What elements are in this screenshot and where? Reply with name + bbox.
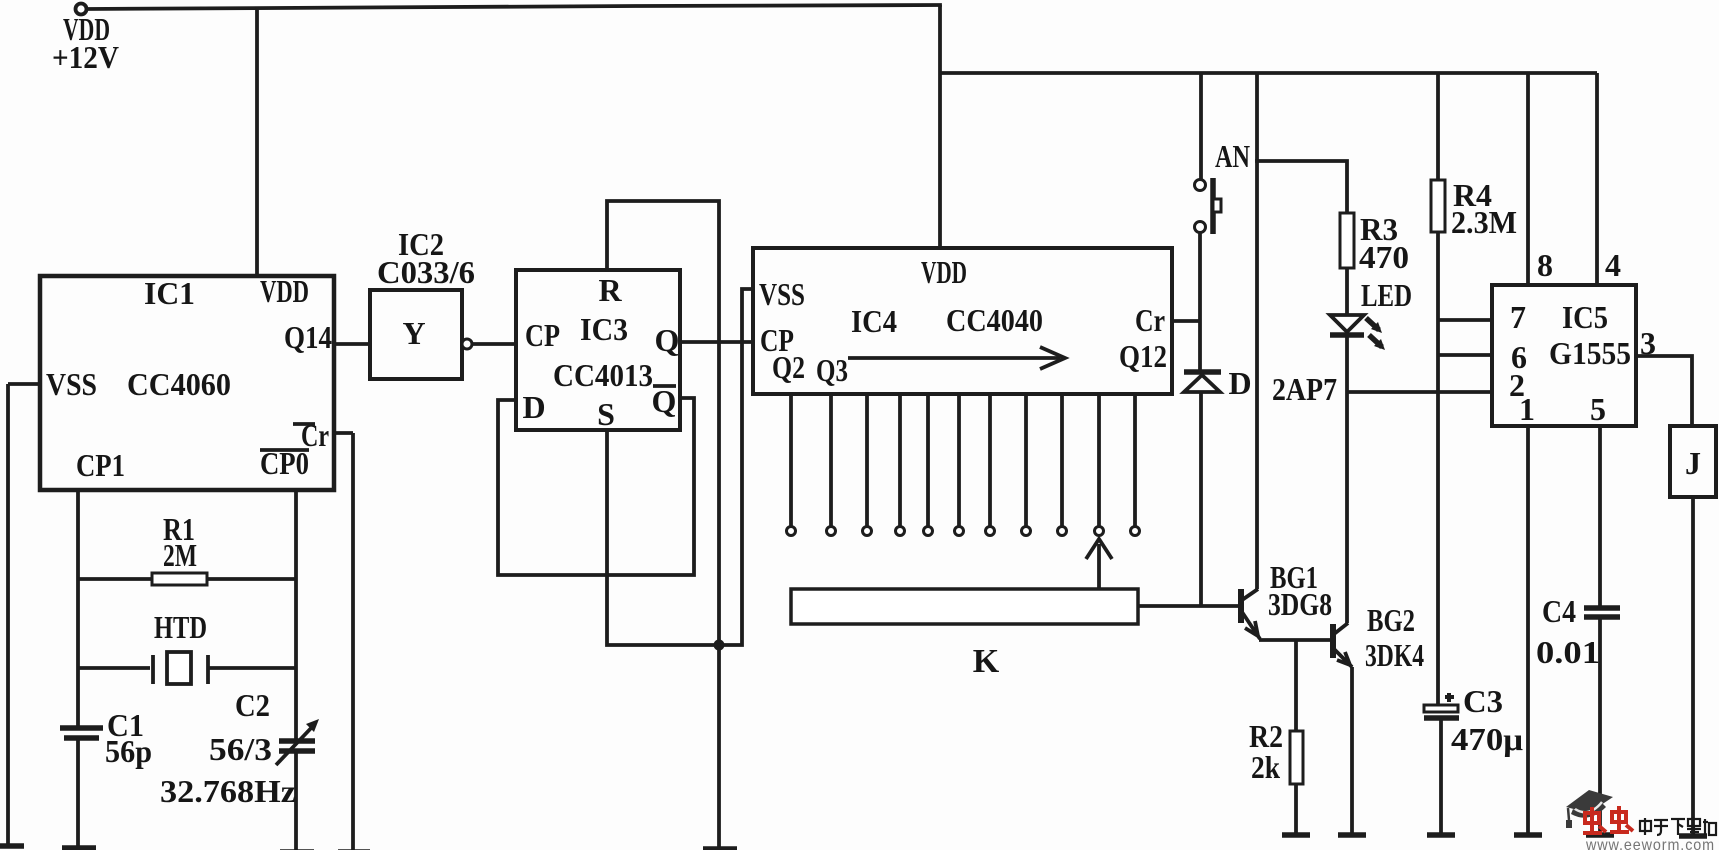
capacitor C3 bottom plate [1424, 715, 1459, 721]
svg-text:IC4: IC4 [851, 303, 897, 339]
svg-text:4: 4 [1605, 247, 1621, 283]
wire +12V rail right section [940, 71, 1597, 75]
svg-text:VSS: VSS [46, 366, 97, 402]
resistor R3 body [1340, 213, 1354, 268]
crystal HTD lead left [78, 666, 150, 670]
IC2 C033/6 inverter box [370, 290, 462, 379]
svg-text:Q2: Q2 [772, 349, 805, 385]
ground tick IC3 column [703, 846, 737, 850]
wire IC2 output to IC3 CP [472, 342, 516, 346]
switch K body [791, 589, 1138, 624]
wire CP0 column down [294, 490, 298, 741]
svg-text:J: J [1685, 445, 1701, 481]
wire CP1 column down [76, 490, 80, 727]
svg-text:G1555: G1555 [1549, 335, 1631, 371]
capacitor C4 plates [1584, 605, 1620, 611]
ground tick left rail [0, 843, 24, 849]
svg-text:C4: C4 [1542, 593, 1576, 629]
IC4 output pin stem 6 [957, 394, 961, 526]
resistor R1 wire [78, 577, 296, 581]
relay J box [1670, 426, 1716, 497]
wire J to ground [1691, 497, 1695, 836]
wire R4 down to C3 [1436, 232, 1440, 705]
svg-text:Cr: Cr [1135, 302, 1165, 338]
svg-text:S: S [597, 396, 615, 432]
transistor BG1 base bar [1238, 589, 1244, 623]
ground tick R2 [1282, 832, 1310, 838]
svg-text:2AP7: 2AP7 [1272, 371, 1337, 407]
wire C2 to ground [294, 751, 298, 850]
wire C1 to ground [76, 738, 80, 848]
wire IC5 pin3 to relay J [1636, 356, 1692, 426]
wire rail branch down to BG1 collector [1255, 73, 1259, 589]
svg-text:2k: 2k [1251, 749, 1280, 785]
wire IC1 Cr pin right [334, 431, 353, 435]
svg-text:CP1: CP1 [76, 447, 125, 483]
transistor BG2 emitter [1334, 649, 1352, 667]
svg-text:C3: C3 [1463, 683, 1503, 719]
wire IC3 R pin loop to ground column [607, 201, 719, 645]
svg-text:7: 7 [1510, 299, 1526, 335]
svg-text:8: 8 [1537, 247, 1553, 283]
wire R3 branch from collector rail [1257, 161, 1347, 213]
wire IC4 Cr pin to AN column [1172, 319, 1200, 323]
wire IC5 pin1 to ground [1526, 426, 1530, 835]
svg-text:CC4013: CC4013 [553, 357, 653, 393]
ground tick C1 [62, 845, 96, 850]
IC4 output pin stem 8 [1024, 394, 1028, 526]
wire R2 branch down [1294, 640, 1298, 731]
ground tick pin1 [1514, 832, 1542, 838]
wire IC3 Qbar to D feedback loop [498, 398, 694, 575]
diode D triangle [1184, 375, 1220, 392]
wire LED cathode down to BG2 collector [1345, 335, 1349, 623]
wire IC5 pin5 down to C4 [1598, 426, 1602, 608]
svg-text:CC4060: CC4060 [127, 366, 231, 402]
svg-text:IC3: IC3 [580, 311, 628, 347]
IC4 output pin stem 9 [1060, 394, 1064, 526]
svg-text:CP: CP [525, 317, 560, 353]
wire rail branch down to AN button [1199, 73, 1203, 179]
svg-text:32.768Hz: 32.768Hz [160, 773, 296, 809]
svg-text:IC5: IC5 [1562, 299, 1608, 335]
svg-text:Q: Q [652, 383, 677, 419]
wire K output to BG1 base [1138, 604, 1239, 608]
ground tick C4 [1586, 832, 1614, 838]
IC4 CC4040 box [753, 248, 1172, 394]
wire BG1 emitter to BG2 base [1259, 638, 1332, 642]
wire IC5 pin7 [1438, 318, 1492, 322]
trimmer C2 arrow [276, 725, 314, 765]
wire C3 to ground [1439, 718, 1443, 835]
resistor R1 body [152, 573, 207, 585]
pushbutton AN bottom contact [1195, 222, 1206, 233]
IC4 output pin Q3 stem [829, 394, 833, 526]
svg-text:56p: 56p [105, 733, 152, 769]
capacitor C3 top plate [1424, 705, 1458, 712]
crystal HTD left electrode [151, 655, 155, 684]
wire VDD feed down to IC1 [255, 7, 259, 276]
IC4 internal arrow [848, 356, 1060, 360]
svg-text:VSS: VSS [759, 276, 805, 312]
wire VDD feed down to IC4 [938, 5, 942, 248]
transistor BG2 base bar [1330, 624, 1336, 658]
svg-text:HTD: HTD [154, 609, 207, 645]
svg-text:Y: Y [402, 315, 425, 351]
IC4 output pin Q2 stem [789, 394, 793, 526]
IC1 CC4060 box [40, 276, 334, 490]
pushbutton AN top contact [1195, 180, 1206, 191]
ground tick C2 column [280, 849, 314, 850]
transistor BG2 collector [1334, 623, 1348, 634]
svg-text:C2: C2 [235, 687, 270, 723]
svg-text:R: R [598, 272, 622, 308]
IC4 output pin stem 3 [865, 394, 869, 526]
capacitor C3 plus mark [1445, 695, 1454, 699]
junction R-S-ground [714, 640, 725, 651]
pushbutton AN actuator [1210, 178, 1216, 234]
svg-text:VDD: VDD [921, 254, 967, 290]
wire AN to diode D [1198, 233, 1202, 372]
LED triangle [1330, 315, 1364, 332]
svg-text:Q14: Q14 [284, 319, 332, 355]
wire IC3 ground column down [717, 645, 721, 849]
wire rail branch down to IC5 pin8 [1526, 73, 1530, 285]
wire top supply rail [87, 5, 940, 9]
IC4 output pin stem 4 [898, 394, 902, 526]
IC3 CC4013 box [516, 270, 680, 430]
ground tick J [1679, 833, 1707, 839]
svg-text:www.eeworm.com: www.eeworm.com [1585, 837, 1715, 850]
svg-text:Q12: Q12 [1119, 338, 1167, 374]
svg-text:470: 470 [1359, 239, 1409, 275]
svg-text:CC4040: CC4040 [946, 302, 1043, 338]
IC2 output bubble [462, 339, 472, 349]
svg-text:AN: AN [1215, 138, 1250, 174]
svg-text:3DG8: 3DG8 [1268, 586, 1332, 622]
svg-text:C033/6: C033/6 [377, 254, 475, 290]
ground tick C3 [1427, 832, 1455, 838]
wire R3 to LED [1345, 268, 1349, 315]
svg-text:D: D [522, 389, 545, 425]
svg-text:+12V: +12V [52, 39, 119, 75]
crystal HTD body [167, 652, 191, 684]
svg-text:2.3M: 2.3M [1451, 204, 1517, 240]
IC4 output pin stem 5 [926, 394, 930, 526]
svg-text:LED: LED [1361, 277, 1412, 313]
wire IC3 S pin loop to IC4 VSS [607, 289, 753, 645]
svg-text:Q: Q [655, 322, 680, 358]
IC5 G1555 box [1492, 285, 1636, 426]
svg-text:2M: 2M [163, 537, 197, 573]
wire R2 to ground [1294, 784, 1298, 835]
wire IC5 pin6 [1438, 353, 1492, 357]
wire Q14 to IC2 input [334, 342, 370, 346]
wire IC3 Q to IC4 CP [680, 340, 753, 344]
watermark chongchong red characters [1583, 806, 1633, 833]
ground tick BG2 emitter [1338, 832, 1366, 838]
transistor BG1 emitter [1242, 612, 1260, 639]
transistor BG1 collector [1242, 589, 1258, 600]
svg-text:D: D [1228, 365, 1251, 401]
svg-text:0.01: 0.01 [1536, 634, 1600, 670]
wire rail branch down to R4 [1436, 73, 1440, 180]
resistor R2 body [1290, 731, 1303, 784]
resistor R4 body [1431, 180, 1445, 232]
svg-text:470μ: 470μ [1451, 721, 1523, 757]
wire IC1 VSS to left ground rail [8, 382, 40, 386]
switch K wiper arrow [1097, 544, 1101, 589]
IC4 output pin stem 7 [988, 394, 992, 526]
watermark site name glyphs [1640, 818, 1716, 835]
IC4 output pin Q12 stem [1133, 394, 1137, 526]
svg-text:3DK4: 3DK4 [1365, 637, 1424, 673]
svg-text:BG2: BG2 [1367, 602, 1415, 638]
LED cathode bar [1330, 332, 1364, 338]
wire left ground rail down [6, 384, 10, 846]
wire C4 to ground [1598, 617, 1602, 835]
LED light arrows [1366, 318, 1379, 330]
capacitor C1 plates [60, 725, 103, 731]
VDD +12V supply terminal [76, 4, 87, 15]
crystal HTD lead right [208, 666, 296, 670]
crystal HTD right electrode [206, 655, 210, 684]
svg-text:Q3: Q3 [816, 352, 848, 388]
svg-text:K: K [973, 643, 1000, 680]
svg-text:IC1: IC1 [144, 275, 195, 311]
IC4 output pin stem 10 wiper target [1097, 394, 1101, 526]
wire diode D to K output node [1199, 392, 1203, 606]
ground tick Cr column [338, 849, 370, 850]
watermark graduation cap [1566, 790, 1613, 813]
svg-text:5: 5 [1590, 391, 1606, 427]
diode D cathode bar [1184, 369, 1221, 375]
svg-text:1: 1 [1519, 391, 1535, 427]
svg-text:56/3: 56/3 [209, 731, 272, 767]
wire BG2 emitter to ground [1350, 667, 1354, 835]
wire LED node to IC5 pin2 [1347, 390, 1492, 394]
wire Cr column down [351, 433, 355, 850]
svg-text:VDD: VDD [260, 273, 309, 309]
wire rail end down to IC5 pin4 [1595, 73, 1599, 285]
trimmer capacitor C2 plates [279, 738, 315, 744]
